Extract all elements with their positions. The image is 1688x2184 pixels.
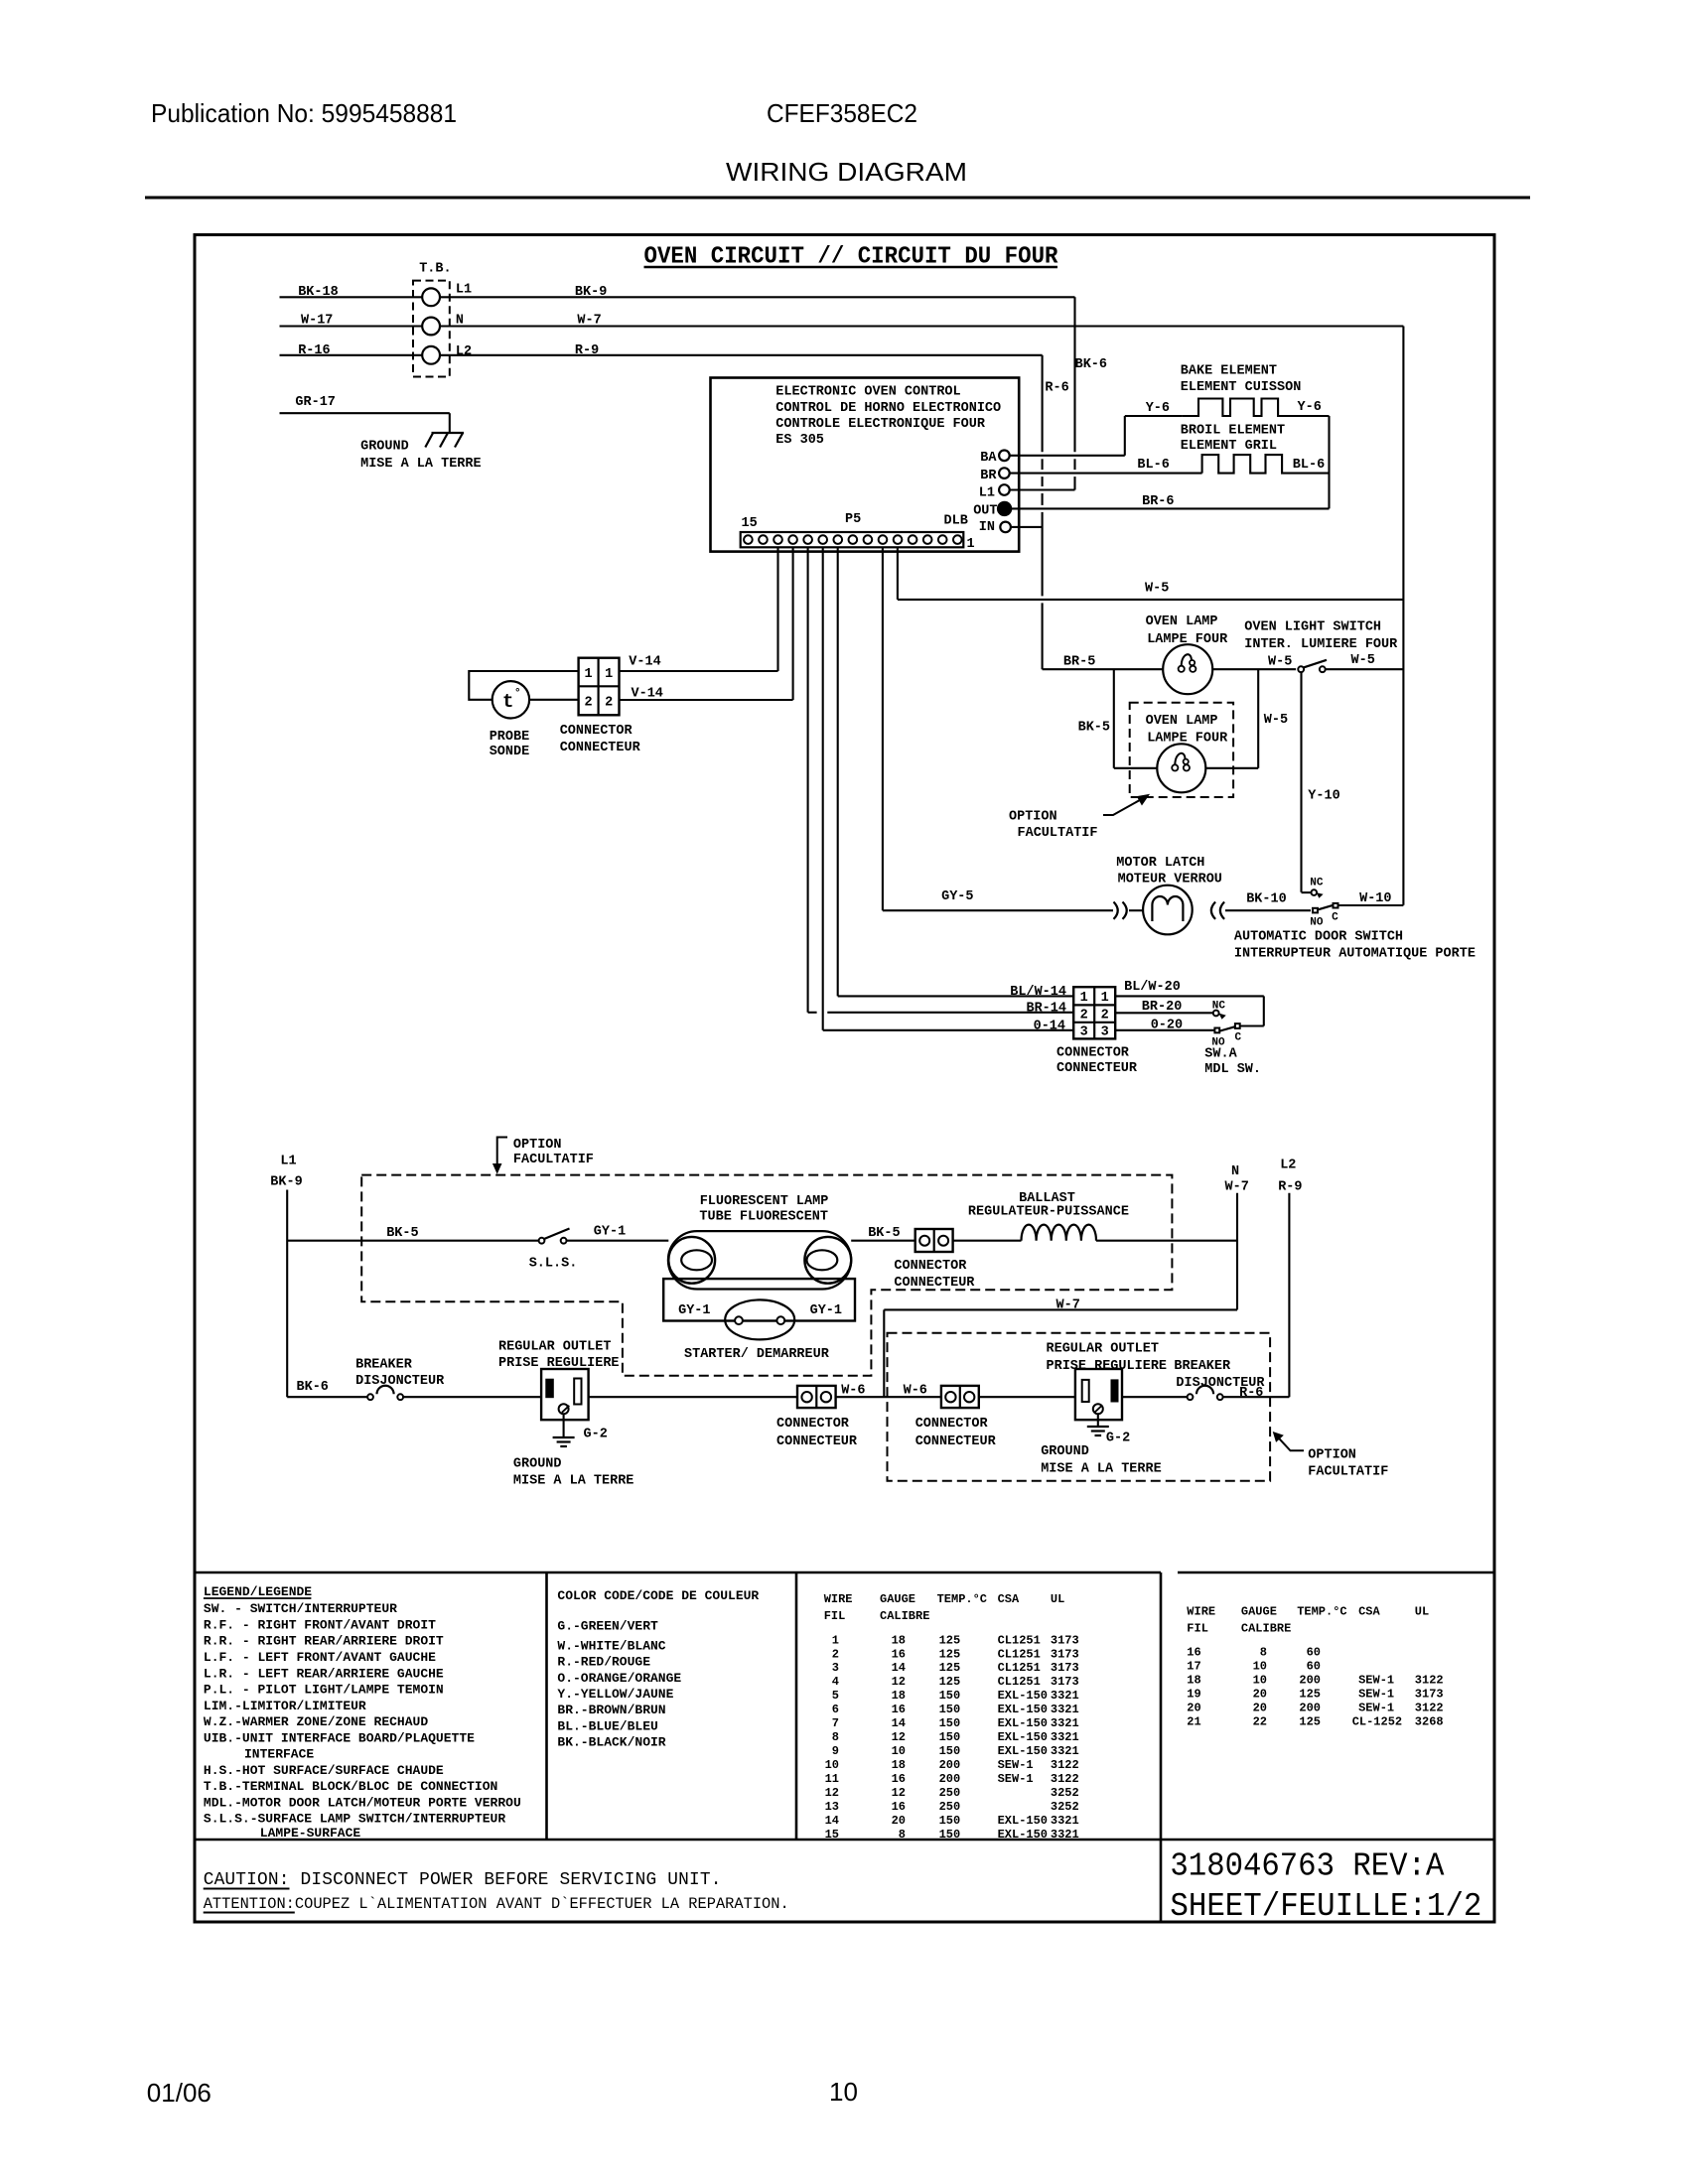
svg-text:UIB.-UNIT INTERFACE BOARD/PLAQ: UIB.-UNIT INTERFACE BOARD/PLAQUETTE: [204, 1730, 475, 1745]
svg-text:SW.A: SW.A: [1204, 1047, 1237, 1062]
option dashed box outlet2: [888, 1333, 1271, 1481]
svg-text:3: 3: [1080, 1025, 1088, 1040]
door switch blade: [1318, 905, 1333, 909]
svg-text:EXL-150: EXL-150: [998, 1689, 1048, 1703]
P5 pin circle 11: [803, 535, 812, 544]
P5 pin circle 4: [909, 535, 917, 544]
svg-text:GROUND: GROUND: [513, 1457, 562, 1472]
svg-text:3122: 3122: [1051, 1758, 1079, 1772]
legend column divider 2: [795, 1572, 798, 1840]
svg-text:14: 14: [825, 1814, 839, 1828]
svg-text:BREAKER: BREAKER: [1174, 1359, 1231, 1374]
option dashed outline fluorescent: [361, 1175, 1172, 1376]
pin BR circle: [999, 468, 1010, 478]
svg-text:R-6: R-6: [1045, 381, 1068, 396]
svg-text:BK-9: BK-9: [575, 285, 607, 300]
svg-text:GY-1: GY-1: [594, 1225, 626, 1240]
oven lamp 2: [1157, 744, 1205, 792]
svg-text:BR-14: BR-14: [1026, 1002, 1066, 1017]
wire BA to bake element Y-6: [1010, 455, 1125, 457]
P5 pin circle 13: [774, 535, 782, 544]
svg-text:MISE A LA TERRE: MISE A LA TERRE: [513, 1474, 634, 1489]
svg-text:20: 20: [1187, 1702, 1200, 1715]
svg-text:3252: 3252: [1051, 1800, 1079, 1814]
svg-text:L2: L2: [456, 344, 472, 359]
svg-text:W-7: W-7: [577, 314, 601, 329]
svg-text:T.B.-TERMINAL BLOCK/BLOC DE CO: T.B.-TERMINAL BLOCK/BLOC DE CONNECTION: [204, 1779, 497, 1794]
wire BR to broil element BL-6: [1010, 473, 1202, 475]
svg-text:18: 18: [892, 1633, 906, 1647]
svg-text:EXL-150: EXL-150: [998, 1703, 1048, 1716]
svg-text:R-6: R-6: [1239, 1386, 1263, 1401]
svg-text:PRISE REGULIERE: PRISE REGULIERE: [1047, 1359, 1168, 1374]
svg-text:15: 15: [825, 1828, 839, 1842]
svg-text:CL1251: CL1251: [998, 1661, 1041, 1675]
svg-text:L1: L1: [280, 1154, 296, 1168]
svg-text:STARTER/ DEMARREUR: STARTER/ DEMARREUR: [684, 1347, 830, 1362]
wire connector2 to outlet2: [979, 1396, 1075, 1398]
svg-text:BK-5: BK-5: [1078, 720, 1110, 735]
svg-text:W-10: W-10: [1359, 891, 1391, 906]
svg-text:3122: 3122: [1415, 1702, 1444, 1715]
svg-text:150: 150: [939, 1730, 961, 1744]
svg-text:LAMPE FOUR: LAMPE FOUR: [1147, 632, 1228, 647]
svg-text:18: 18: [892, 1689, 906, 1703]
svg-text:200: 200: [939, 1772, 961, 1786]
terminal L2 circle: [422, 346, 440, 364]
svg-text:EXL-150: EXL-150: [998, 1828, 1048, 1842]
wire W-7 vertical right side: [1402, 327, 1404, 905]
wire L1 pin to BK-6: [1010, 488, 1075, 490]
svg-text:W-5: W-5: [1268, 654, 1292, 669]
ballast connector 2pin: [915, 1229, 953, 1252]
svg-text:MOTEUR VERROU: MOTEUR VERROU: [1118, 872, 1222, 887]
svg-text:G.-GREEN/VERT: G.-GREEN/VERT: [557, 1619, 658, 1634]
svg-text:Y-10: Y-10: [1308, 788, 1339, 803]
svg-text:16: 16: [1187, 1646, 1200, 1660]
svg-text:T.B.: T.B.: [419, 262, 451, 277]
svg-text:125: 125: [1299, 1715, 1321, 1729]
svg-text:W-5: W-5: [1264, 713, 1288, 728]
svg-text:ELECTRONIC OVEN CONTROL: ELECTRONIC OVEN CONTROL: [775, 384, 960, 399]
svg-text:EXL-150: EXL-150: [998, 1744, 1048, 1758]
svg-text:60: 60: [1307, 1660, 1321, 1674]
wire BK-5 lower: [287, 1240, 539, 1242]
svg-text:NO: NO: [1310, 916, 1324, 928]
wire GY-1 to lamp: [567, 1240, 669, 1242]
svg-text:CONNECTOR: CONNECTOR: [894, 1259, 967, 1274]
svg-text:14: 14: [892, 1661, 906, 1675]
svg-text:4: 4: [832, 1675, 839, 1689]
P5 pin circle 3: [923, 535, 932, 544]
connector W-6 first: [797, 1386, 836, 1408]
wire probe left loop: [469, 671, 578, 700]
svg-text:OVEN LAMP: OVEN LAMP: [1146, 614, 1218, 629]
motor latch M1: [1143, 886, 1193, 935]
wire probe right: [529, 699, 579, 701]
svg-text:21: 21: [1187, 1715, 1200, 1729]
svg-text:0-20: 0-20: [1151, 1018, 1183, 1032]
svg-text:6: 6: [832, 1703, 839, 1716]
svg-text:ATTENTION:COUPEZ L`ALIMENTATIO: ATTENTION:COUPEZ L`ALIMENTATION AVANT D`…: [204, 1895, 789, 1913]
svg-text:9: 9: [832, 1744, 839, 1758]
svg-text:2: 2: [585, 696, 593, 711]
svg-text:CFEF358EC2: CFEF358EC2: [767, 98, 917, 128]
svg-text:BL-6: BL-6: [1293, 458, 1325, 473]
wire BL/W-14 drop: [837, 547, 839, 996]
svg-text:BK-5: BK-5: [386, 1226, 418, 1241]
wire W-7 drop to W-6: [883, 1309, 885, 1397]
wire IN to R-6: [1011, 526, 1043, 528]
svg-text:BK-10: BK-10: [1246, 892, 1287, 907]
svg-text:1: 1: [585, 667, 593, 682]
svg-text:BR-5: BR-5: [1063, 654, 1095, 669]
svg-text:REGULAR OUTLET: REGULAR OUTLET: [498, 1340, 611, 1355]
svg-text:BK-5: BK-5: [868, 1226, 900, 1241]
svg-text:W-6: W-6: [904, 1384, 927, 1399]
door switch NC contact: [1312, 889, 1318, 895]
svg-text:12: 12: [892, 1675, 906, 1689]
svg-text:BK-6: BK-6: [1075, 357, 1107, 372]
svg-text:16: 16: [892, 1647, 906, 1661]
diagram border frame: [195, 235, 1494, 1923]
wire ballast to N: [1096, 1240, 1237, 1242]
svg-text:P5: P5: [845, 512, 861, 527]
terminal N circle: [422, 318, 440, 336]
wire R-16: [280, 354, 423, 356]
svg-text:150: 150: [939, 1716, 961, 1730]
wire to ballast: [953, 1240, 1022, 1242]
svg-text:R.-RED/ROUGE: R.-RED/ROUGE: [557, 1654, 650, 1669]
svg-text:R-9: R-9: [575, 343, 599, 358]
oven light switch S1: [1298, 666, 1304, 672]
svg-text:Y-6: Y-6: [1146, 401, 1170, 416]
wire W-6 between connectors: [836, 1396, 941, 1398]
probe circle t: [492, 681, 529, 718]
P5 pin circle 2: [938, 535, 947, 544]
wire W-17: [280, 325, 423, 327]
wire W-5 drop: [897, 547, 899, 600]
svg-text:3173: 3173: [1051, 1633, 1079, 1647]
ballast inductor coil: [1022, 1225, 1097, 1241]
svg-text:INTERRUPTEUR AUTOMATIQUE PORTE: INTERRUPTEUR AUTOMATIQUE PORTE: [1234, 946, 1476, 961]
wire R-6 vertical: [1042, 355, 1044, 453]
svg-text:150: 150: [939, 1744, 961, 1758]
svg-text:CONNECTEUR: CONNECTEUR: [560, 741, 641, 755]
svg-text:1: 1: [967, 537, 975, 552]
svg-text:CL1251: CL1251: [998, 1647, 1041, 1661]
svg-text:BK.-BLACK/NOIR: BK.-BLACK/NOIR: [557, 1734, 665, 1749]
wire O-20: [1115, 1029, 1214, 1031]
wire BK-9: [440, 296, 1075, 298]
svg-text:CONNECTOR: CONNECTOR: [560, 724, 633, 739]
svg-text:200: 200: [1299, 1702, 1321, 1715]
mdl switch NO terminal: [1214, 1028, 1219, 1033]
svg-text:TEMP.°C: TEMP.°C: [1297, 1605, 1346, 1619]
svg-text:CONNECTEUR: CONNECTEUR: [894, 1276, 975, 1291]
svg-text:16: 16: [892, 1703, 906, 1716]
svg-text:L.F. - LEFT FRONT/AVANT GAUCHE: L.F. - LEFT FRONT/AVANT GAUCHE: [204, 1650, 436, 1665]
svg-text:Y.-YELLOW/JAUNE: Y.-YELLOW/JAUNE: [557, 1687, 673, 1702]
svg-text:REGULATEUR-PUISSANCE: REGULATEUR-PUISSANCE: [968, 1205, 1129, 1220]
svg-text:C: C: [1235, 1032, 1242, 1044]
pin BA circle: [999, 451, 1010, 462]
ground symbol chassis: [449, 413, 451, 433]
wire O-14 drop: [822, 547, 824, 1030]
svg-text:12: 12: [892, 1786, 906, 1800]
svg-text:INTERFACE: INTERFACE: [244, 1746, 314, 1761]
P5 pin circle 6: [879, 535, 888, 544]
wire BK-9 lower vertical: [286, 1190, 288, 1398]
svg-text:12: 12: [892, 1730, 906, 1744]
wire V-14 pin13 drop: [776, 547, 778, 671]
pin OUT filled circle: [998, 502, 1011, 515]
svg-text:8: 8: [899, 1828, 906, 1842]
svg-text:OPTION: OPTION: [513, 1138, 562, 1153]
svg-text:BR-20: BR-20: [1142, 1000, 1183, 1015]
ground outlet 2: [1097, 1414, 1099, 1427]
surface lamp switch S.L.S.: [539, 1238, 545, 1244]
svg-text:8: 8: [1260, 1646, 1267, 1660]
svg-text:2: 2: [832, 1647, 839, 1661]
svg-text:FACULTATIF: FACULTATIF: [1308, 1464, 1388, 1479]
svg-text:GROUND: GROUND: [360, 440, 409, 455]
wire BK-6 lower: [287, 1396, 368, 1398]
mdl switch C terminal: [1235, 1024, 1240, 1028]
svg-text:CSA: CSA: [1358, 1605, 1380, 1619]
svg-text:GAUGE: GAUGE: [880, 1592, 915, 1606]
svg-text:3321: 3321: [1051, 1703, 1079, 1716]
regular outlet 1: [541, 1369, 589, 1420]
wire GY-5 horizontal: [883, 909, 1113, 911]
svg-text:WIRE: WIRE: [824, 1592, 853, 1606]
wire OUT BR-6: [1011, 507, 1329, 509]
svg-text:BL/W-20: BL/W-20: [1124, 980, 1181, 995]
svg-text:P.L. - PILOT LIGHT/LAMPE TEMOI: P.L. - PILOT LIGHT/LAMPE TEMOIN: [204, 1682, 444, 1697]
svg-text:125: 125: [939, 1633, 961, 1647]
svg-text:10: 10: [892, 1744, 906, 1758]
fluorescent tube left ring: [668, 1237, 715, 1284]
svg-text:3321: 3321: [1051, 1716, 1079, 1730]
svg-text:150: 150: [939, 1703, 961, 1716]
wire W-7: [440, 325, 1403, 327]
svg-text:W.Z.-WARMER ZONE/ZONE RECHAUD: W.Z.-WARMER ZONE/ZONE RECHAUD: [204, 1714, 428, 1729]
svg-text:3268: 3268: [1415, 1715, 1444, 1729]
svg-text:0-14: 0-14: [1034, 1020, 1065, 1034]
svg-text:3173: 3173: [1051, 1647, 1079, 1661]
svg-text:W-5: W-5: [1351, 653, 1375, 668]
svg-text:L1: L1: [456, 283, 472, 298]
svg-text:3321: 3321: [1051, 1730, 1079, 1744]
svg-text:BL.-BLUE/BLEU: BL.-BLUE/BLEU: [557, 1718, 657, 1733]
svg-text:CONTROL DE HORNO ELECTRONICO: CONTROL DE HORNO ELECTRONICO: [775, 401, 1001, 416]
svg-text:PROBE: PROBE: [490, 730, 530, 745]
svg-text:WIRE: WIRE: [1187, 1605, 1215, 1619]
svg-text:Y-6: Y-6: [1298, 400, 1322, 415]
svg-text:22: 22: [1253, 1715, 1267, 1729]
P5 pin circle 15: [744, 535, 753, 544]
svg-text:3321: 3321: [1051, 1814, 1079, 1828]
mdl switch blade: [1220, 1026, 1235, 1030]
option leader arrow upper: [1103, 799, 1143, 816]
svg-text:16: 16: [892, 1800, 906, 1814]
svg-text:PRISE REGULIERE: PRISE REGULIERE: [498, 1356, 620, 1371]
svg-text:OVEN LIGHT SWITCH: OVEN LIGHT SWITCH: [1244, 620, 1381, 635]
wire V-14 pin12 drop: [792, 547, 794, 700]
svg-text:3173: 3173: [1051, 1675, 1079, 1689]
svg-text:13: 13: [825, 1800, 839, 1814]
svg-text:SEW-1: SEW-1: [1358, 1674, 1394, 1688]
wire Y-10 vertical: [1300, 672, 1302, 892]
svg-text:3173: 3173: [1415, 1688, 1444, 1702]
mdl switch NC contact: [1213, 1011, 1219, 1017]
svg-text:Publication No: 5995458881: Publication No: 5995458881: [151, 98, 457, 128]
starter terminal circles: [735, 1316, 743, 1324]
svg-text:CL1251: CL1251: [998, 1675, 1041, 1689]
connector chevrons right: [1211, 902, 1215, 919]
svg-text:15: 15: [742, 516, 758, 531]
svg-text:R-9: R-9: [1278, 1180, 1302, 1195]
svg-text:MISE A LA TERRE: MISE A LA TERRE: [360, 457, 482, 472]
fluorescent tube right ring: [804, 1237, 851, 1284]
P5 connector strip: [741, 532, 964, 547]
fluorescent tube outline: [668, 1231, 851, 1289]
svg-text:CONNECTOR: CONNECTOR: [776, 1417, 850, 1432]
wire BR-20: [1115, 1012, 1213, 1014]
svg-text:14: 14: [892, 1716, 906, 1730]
svg-text:3173: 3173: [1051, 1661, 1079, 1675]
wire BL/W-20: [1115, 995, 1264, 997]
svg-text:SEW-1: SEW-1: [1358, 1702, 1394, 1715]
svg-text:BL/W-14: BL/W-14: [1010, 985, 1066, 1000]
svg-text:3321: 3321: [1051, 1689, 1079, 1703]
svg-text:SEW-1: SEW-1: [998, 1758, 1034, 1772]
svg-text:OUT: OUT: [973, 503, 997, 518]
svg-text:EXL-150: EXL-150: [998, 1716, 1048, 1730]
svg-text:WIRING DIAGRAM: WIRING DIAGRAM: [726, 157, 967, 187]
connector W-6 second: [941, 1386, 979, 1408]
optional oven lamp dashed box: [1130, 703, 1233, 797]
svg-text:GR-17: GR-17: [295, 395, 336, 410]
bake element heating coil: [1182, 399, 1329, 417]
svg-text:MDL.-MOTOR DOOR LATCH/MOTEUR P: MDL.-MOTOR DOOR LATCH/MOTEUR PORTE VERRO…: [204, 1795, 521, 1810]
svg-text:18: 18: [1187, 1674, 1200, 1688]
svg-text:SEW-1: SEW-1: [998, 1772, 1034, 1786]
svg-text:11: 11: [825, 1772, 839, 1786]
svg-text:W-5: W-5: [1145, 582, 1169, 597]
svg-text:CSA: CSA: [998, 1592, 1020, 1606]
breaker 1: [367, 1394, 373, 1400]
breaker 2: [1188, 1394, 1194, 1400]
connector 3x2 box: [1073, 987, 1115, 1038]
svg-text:CAUTION: DISCONNECT POWER BEFO: CAUTION: DISCONNECT POWER BEFORE SERVICI…: [204, 1869, 722, 1890]
wire breaker2 to L2: [1222, 1396, 1289, 1398]
svg-text:FACULTATIF: FACULTATIF: [513, 1153, 594, 1167]
wire BR-14 drop: [807, 547, 809, 1013]
svg-text:BREAKER: BREAKER: [355, 1358, 413, 1373]
wire W-7 return: [884, 1308, 1237, 1310]
svg-text:1: 1: [605, 667, 613, 682]
svg-text:W-7: W-7: [1056, 1297, 1080, 1312]
svg-text:MOTOR LATCH: MOTOR LATCH: [1116, 856, 1204, 871]
svg-text:S.L.S.: S.L.S.: [529, 1257, 578, 1272]
svg-text:250: 250: [939, 1786, 961, 1800]
ground outlet 1: [563, 1414, 565, 1437]
svg-text:10: 10: [825, 1758, 839, 1772]
svg-text:R.R. - RIGHT REAR/ARRIERE DROI: R.R. - RIGHT REAR/ARRIERE DROIT: [204, 1634, 444, 1649]
svg-text:NC: NC: [1212, 1001, 1226, 1013]
svg-text:OPTION: OPTION: [1308, 1448, 1356, 1463]
svg-text:DLB: DLB: [944, 514, 968, 529]
svg-text:125: 125: [939, 1661, 961, 1675]
svg-text:R.F. - RIGHT FRONT/AVANT DROIT: R.F. - RIGHT FRONT/AVANT DROIT: [204, 1618, 436, 1633]
svg-text:10: 10: [829, 2077, 858, 2107]
wire BK-5 lamp2 branch: [1113, 669, 1115, 768]
svg-text:W-17: W-17: [301, 314, 333, 329]
svg-text:16: 16: [892, 1772, 906, 1786]
svg-text:IN: IN: [979, 520, 995, 535]
wire W-5 horizontal: [898, 599, 1404, 601]
svg-text:GY-1: GY-1: [810, 1303, 842, 1318]
wire latch lead left: [1129, 909, 1144, 911]
pin L1 circle: [999, 484, 1010, 495]
svg-text:200: 200: [1299, 1674, 1321, 1688]
svg-text:150: 150: [939, 1828, 961, 1842]
svg-text:V-14: V-14: [629, 655, 660, 670]
connector chevrons left: [1114, 902, 1118, 919]
svg-text:20: 20: [892, 1814, 906, 1828]
svg-text:1: 1: [832, 1633, 839, 1647]
svg-text:18: 18: [892, 1758, 906, 1772]
door switch C terminal: [1334, 903, 1338, 908]
svg-text:1: 1: [1101, 991, 1109, 1006]
wire N W-7 vertical: [1236, 1193, 1238, 1310]
svg-text:2: 2: [1101, 1009, 1109, 1024]
svg-text:200: 200: [939, 1758, 961, 1772]
svg-text:GY-1: GY-1: [678, 1303, 710, 1318]
svg-text:CONNECTEUR: CONNECTEUR: [915, 1434, 997, 1449]
wire BK-10: [1225, 909, 1311, 911]
legend box right edge / caution divider: [1160, 1572, 1163, 1922]
svg-text:C: C: [1332, 911, 1338, 923]
svg-text:3: 3: [1101, 1025, 1109, 1040]
option leader arrow lower-left: [497, 1138, 507, 1166]
svg-text:FIL: FIL: [1187, 1622, 1208, 1636]
svg-text:3122: 3122: [1415, 1674, 1444, 1688]
option leader arrow lower-right: [1279, 1437, 1305, 1450]
svg-text:°: °: [514, 688, 521, 700]
svg-text:SW. - SWITCH/INTERRUPTEUR: SW. - SWITCH/INTERRUPTEUR: [204, 1601, 397, 1616]
svg-text:SHEET/FEUILLE:1/2: SHEET/FEUILLE:1/2: [1170, 1888, 1481, 1925]
svg-text:10: 10: [1253, 1674, 1267, 1688]
svg-text:1: 1: [1080, 991, 1088, 1006]
oven lamp 1: [1163, 644, 1212, 694]
svg-text:CL1251: CL1251: [998, 1633, 1041, 1647]
wire BK-5 tube right: [851, 1240, 915, 1242]
svg-text:CONTROLE ELECTRONIQUE FOUR: CONTROLE ELECTRONIQUE FOUR: [775, 417, 986, 432]
svg-text:BA: BA: [980, 451, 997, 466]
svg-text:CONNECTOR: CONNECTOR: [915, 1417, 989, 1432]
svg-text:12: 12: [825, 1786, 839, 1800]
svg-text:COLOR CODE/CODE DE COULEUR: COLOR CODE/CODE DE COULEUR: [557, 1588, 759, 1603]
svg-text:GAUGE: GAUGE: [1241, 1605, 1277, 1619]
svg-text:3252: 3252: [1051, 1786, 1079, 1800]
svg-text:OVEN LAMP: OVEN LAMP: [1146, 714, 1218, 729]
svg-text:LIM.-LIMITOR/LIMITEUR: LIM.-LIMITOR/LIMITEUR: [204, 1699, 366, 1713]
svg-text:250: 250: [939, 1800, 961, 1814]
svg-text:125: 125: [1299, 1688, 1321, 1702]
svg-text:20: 20: [1253, 1702, 1267, 1715]
